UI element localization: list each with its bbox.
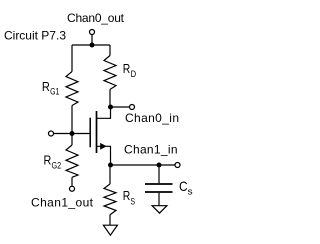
svg-text:G1: G1 (50, 87, 59, 97)
node junction top rail (90, 43, 95, 48)
svg-text:Chan1_out: Chan1_out (31, 196, 94, 210)
wire Q1 source tap (97, 146, 111, 165)
transistor Q1 source arrow (100, 143, 106, 150)
transistor Q1 gate bar (89, 118, 91, 148)
wire RD top lead (109, 45, 111, 56)
terminal Chan1_in (175, 163, 180, 168)
node junction Cs tap (157, 163, 162, 168)
wire RG2 bottom lead (71, 177, 73, 186)
resistor RS (104, 184, 116, 215)
wire Q1 drain tap (97, 107, 111, 118)
wire RG2 top lead (71, 134, 73, 146)
resistor RD (104, 56, 116, 90)
svg-text:Chan0_out: Chan0_out (67, 11, 125, 25)
wire gate lead (53, 133, 90, 135)
transistor Q1 channel bar (96, 111, 98, 153)
node junction gate (70, 131, 75, 136)
svg-text:Circuit P7.3: Circuit P7.3 (4, 29, 66, 43)
svg-text:G2: G2 (52, 161, 62, 171)
svg-text:Chan0_in: Chan0_in (125, 111, 179, 125)
wire RD bottom lead to drain node (109, 89, 111, 107)
wire Cs bottom lead (158, 193, 160, 206)
node junction source (108, 163, 113, 168)
terminal gate input (49, 131, 54, 136)
svg-text:R: R (44, 153, 52, 168)
terminal Chan0_in (130, 105, 135, 110)
ground under Cs (152, 206, 167, 213)
terminal Chan0_out (90, 30, 95, 35)
resistor RG2 (66, 145, 78, 177)
svg-text:R: R (123, 188, 131, 203)
svg-text:D: D (131, 69, 137, 79)
node junction drain (108, 105, 113, 110)
svg-text:R: R (42, 79, 50, 94)
svg-text:s: s (188, 187, 194, 197)
capacitor Cs plates (145, 184, 173, 192)
svg-text:Chan1_in: Chan1_in (124, 143, 178, 157)
svg-text:R: R (123, 61, 131, 76)
wire RG1 bottom lead (71, 106, 73, 134)
wire Chan0_in lead (111, 106, 130, 108)
wire Chan0_out lead (91, 34, 93, 45)
wire top rail node Chan0_out (72, 44, 110, 46)
terminal Chan1_out (70, 186, 75, 191)
resistor RG1 (66, 72, 78, 106)
wire RG1 top lead (71, 45, 73, 72)
svg-text:C: C (179, 178, 188, 194)
wire source rail (111, 164, 176, 166)
wire RS bottom lead (109, 215, 111, 226)
wire Cs top lead (158, 165, 160, 183)
wire RS top lead (109, 165, 111, 184)
svg-text:S: S (130, 196, 135, 206)
ground under RS (103, 225, 117, 235)
